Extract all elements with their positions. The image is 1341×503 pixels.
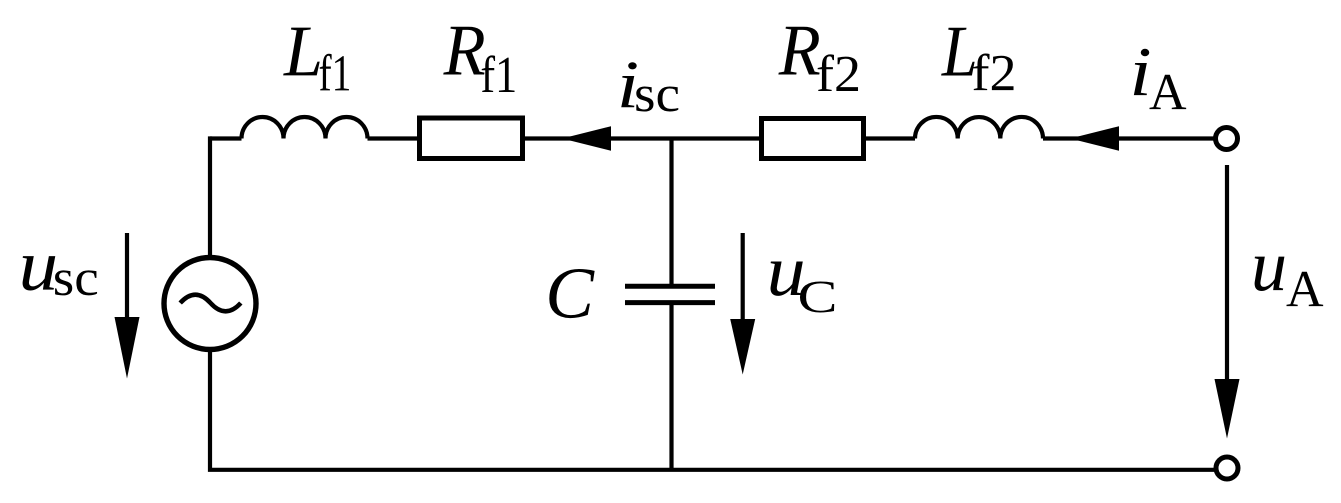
svg-text:R: R — [778, 10, 821, 91]
svg-text:f2: f2 — [816, 46, 861, 103]
svg-text:A: A — [1286, 261, 1324, 318]
svg-text:sc: sc — [53, 250, 99, 307]
svg-text:C: C — [545, 252, 595, 333]
svg-text:u: u — [1251, 225, 1287, 306]
svg-text:R: R — [443, 9, 486, 90]
svg-text:sc: sc — [634, 66, 680, 123]
svg-text:f2: f2 — [972, 45, 1017, 102]
svg-text:A: A — [1149, 64, 1187, 121]
svg-text:L: L — [283, 10, 323, 91]
svg-text:C: C — [797, 271, 837, 322]
